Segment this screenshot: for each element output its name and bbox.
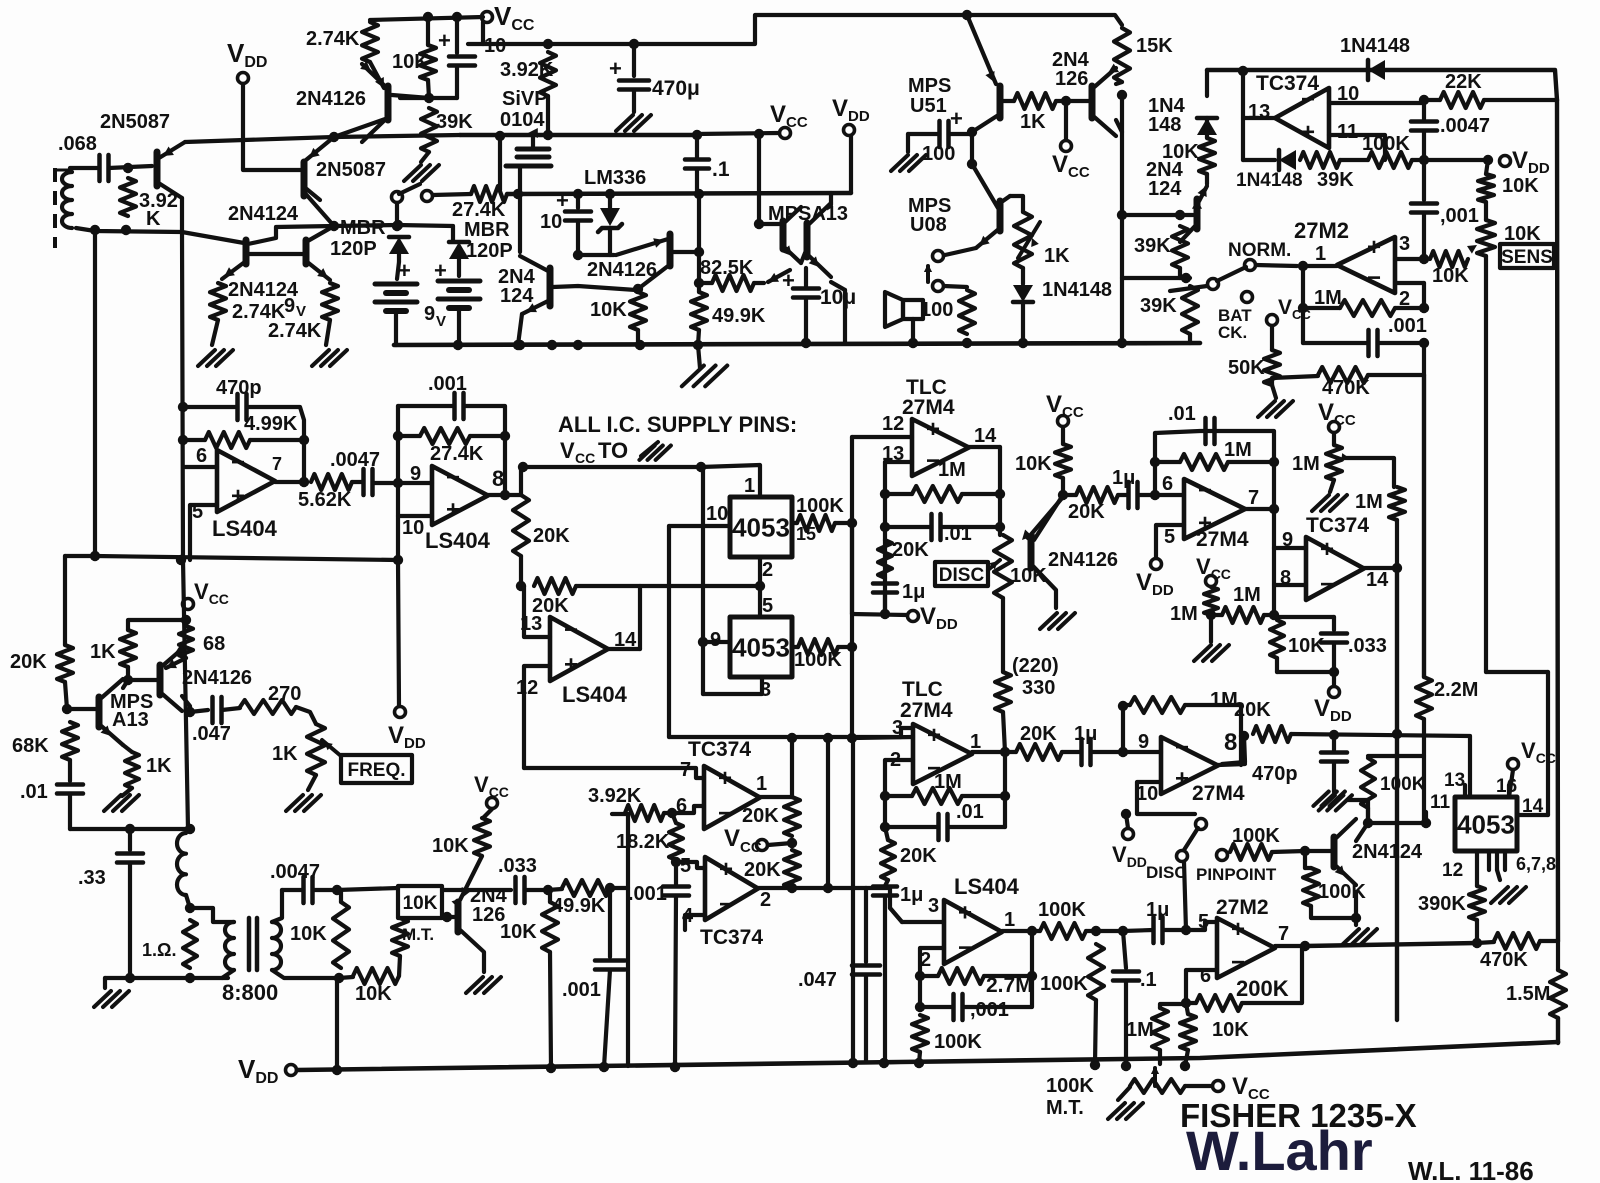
transistor 2N4124 pair-left <box>243 240 250 264</box>
svg-text:330: 330 <box>1022 677 1055 699</box>
transistor 2N4126 disc emitter arrow <box>1022 530 1032 541</box>
svg-text:126: 126 <box>1055 68 1088 90</box>
resistor 20K left <box>57 645 73 682</box>
wire 10K lm to rail <box>636 330 640 345</box>
diode 1N4148 top <box>1368 60 1385 80</box>
svg-text:+: + <box>1367 234 1381 261</box>
node rail 907 <box>908 338 918 348</box>
wire pin6 <box>185 465 217 469</box>
wire 1M 27m4a right <box>962 492 1000 496</box>
svg-text:.033: .033 <box>498 855 537 877</box>
svg-text:100K: 100K <box>934 1031 982 1053</box>
wire 20K-1u join <box>885 880 888 886</box>
wire 2N4126mid collector <box>638 266 668 289</box>
ground disc <box>1040 613 1057 629</box>
svg-text:39K: 39K <box>1140 295 1177 317</box>
capacitor 470uF <box>619 78 649 83</box>
svg-text:14: 14 <box>974 425 997 447</box>
svg-text:390K: 390K <box>1418 893 1466 915</box>
capacitor 10uF out <box>793 286 819 291</box>
svg-text:LS404: LS404 <box>425 528 491 553</box>
wire MPSA13 base <box>759 222 783 226</box>
pot arrow mt <box>1153 1068 1157 1086</box>
wire 1M right <box>1395 306 1424 310</box>
ground under 50K <box>1258 401 1275 417</box>
wire pin10 d <box>1137 782 1195 814</box>
transistor MPSA13 T2 <box>804 223 811 257</box>
mosfet stub <box>531 137 535 149</box>
node 548,135 <box>543 130 553 140</box>
svg-text:100: 100 <box>922 143 955 165</box>
wire MT pot bottom <box>399 956 400 976</box>
chip 4053 C <box>1455 797 1517 851</box>
resistor 10K g <box>1180 1014 1196 1050</box>
box 10K MT <box>398 886 442 918</box>
node 1424,160 <box>1419 155 1429 165</box>
svg-text:10K: 10K <box>1432 265 1469 287</box>
svg-text:9: 9 <box>424 303 435 325</box>
node 190,712 <box>185 707 195 717</box>
switch circle norm L <box>1208 279 1219 290</box>
node 852,738 <box>847 733 857 743</box>
node 548,44 <box>543 39 553 49</box>
wire .033 right <box>525 888 548 892</box>
wire dashed-box stub top <box>55 169 70 172</box>
wire 10K t3 to rail <box>550 952 551 1068</box>
svg-text:1K: 1K <box>146 755 172 777</box>
svg-text:TC374: TC374 <box>1306 514 1369 537</box>
svg-text:+: + <box>718 765 732 792</box>
node rail 1185 <box>1180 1061 1190 1071</box>
svg-text:1K: 1K <box>272 743 298 765</box>
node rail 457 <box>453 340 463 350</box>
node 852,647 <box>847 642 857 652</box>
svg-text:+: + <box>446 496 460 523</box>
mosfet source bar <box>506 164 551 169</box>
capacitor .033 bl <box>513 877 518 903</box>
wire 1426 up <box>1424 812 1428 823</box>
svg-text:1μ: 1μ <box>900 884 923 906</box>
capacitor .001 fb <box>1366 330 1371 356</box>
op-amp 27M2 B <box>1217 918 1275 978</box>
wire cap f right <box>1163 928 1186 932</box>
pot arrow 1K <box>1018 222 1040 258</box>
wire 50K stem <box>1270 326 1274 350</box>
diode to 10K <box>1205 118 1209 138</box>
svg-text:68K: 68K <box>12 735 49 757</box>
wire 866-890 pin3 link <box>866 888 902 922</box>
svg-text:27M2: 27M2 <box>1294 218 1349 243</box>
switch circle norm R <box>1245 260 1256 271</box>
wire right rail bottom <box>1556 1018 1560 1043</box>
wire .01 a left <box>885 525 931 529</box>
node 885,796 <box>880 791 890 801</box>
node 852,523 <box>847 518 857 528</box>
wire T2 emitter lead <box>831 282 845 290</box>
wire 2N5087R collector down <box>303 186 320 200</box>
svg-text:49.9K: 49.9K <box>552 895 606 917</box>
wire base pp <box>1305 849 1334 853</box>
terminal Vcc 4053 <box>1508 759 1519 770</box>
wire .001 t stem <box>608 888 612 957</box>
wire .1 f stem <box>1123 931 1126 968</box>
svg-text:4.99K: 4.99K <box>244 413 298 435</box>
wire .001 right <box>464 406 505 436</box>
wire cap e right <box>1091 750 1123 754</box>
wire out14 b column <box>1395 568 1399 1020</box>
transistor 2N5087 left <box>154 152 161 186</box>
terminal Vdd a <box>908 611 919 622</box>
svg-text:20K: 20K <box>1068 501 1105 523</box>
wire right rail upper <box>1557 100 1558 941</box>
wire .001 e wires <box>920 1005 953 1009</box>
node 398,225 <box>393 220 403 230</box>
resistor 100 spk <box>959 290 975 334</box>
wire 2N4126bl base <box>128 678 160 682</box>
wire switch to diode1 <box>395 203 399 225</box>
wire 2N4126bl collector <box>182 696 190 712</box>
wire T2 emitter drop <box>843 290 847 343</box>
wire 1424 drop <box>1422 736 1426 823</box>
svg-text:39K: 39K <box>436 111 473 133</box>
node 920,1007 <box>915 1002 925 1012</box>
svg-text:TO: TO <box>598 438 628 463</box>
wire zener bottom <box>608 230 612 255</box>
svg-text:5: 5 <box>1164 526 1175 548</box>
svg-text:.1: .1 <box>1140 969 1157 991</box>
capacitor .047 b <box>852 963 880 968</box>
svg-text:8: 8 <box>492 466 504 491</box>
wire vdd sw stub <box>1126 814 1128 828</box>
battery 9V B <box>438 279 480 284</box>
node 1211,615 <box>1206 610 1216 620</box>
node 1155,495 <box>1150 490 1160 500</box>
wire y978 <box>105 976 228 980</box>
terminal Vcc tc <box>757 840 768 851</box>
wire 10K t1 top <box>339 890 343 902</box>
svg-text:2.74K: 2.74K <box>268 320 322 342</box>
svg-text:1M: 1M <box>1210 689 1238 711</box>
svg-text:+: + <box>927 722 941 749</box>
resistor 4.99K <box>205 432 250 448</box>
transformer secondary <box>272 922 281 970</box>
terminal Vdd b <box>1151 559 1162 570</box>
svg-text:100K: 100K <box>796 495 844 517</box>
wire fb mid <box>1340 158 1368 162</box>
wire 10u to rail <box>804 298 808 343</box>
wire 2N4124 collector diag <box>1356 823 1368 841</box>
wire 885 column <box>883 462 887 614</box>
wire norm left stub <box>1170 286 1207 291</box>
wire pin8 b <box>1275 583 1306 587</box>
wire 1K to 2N4126 <box>1056 99 1090 103</box>
node rail 551 <box>546 1063 556 1073</box>
transistor U51 bar <box>997 86 1004 118</box>
resistor MT pot <box>392 918 408 956</box>
wire cap10 bottom <box>455 66 459 98</box>
wire 1123 up <box>1121 706 1125 752</box>
op-amp TC374 D <box>705 857 758 920</box>
wire .001 t to rail <box>604 970 610 1067</box>
resistor 20K 885 <box>878 540 892 578</box>
wire 255 run <box>578 253 614 257</box>
svg-text:1M: 1M <box>1314 287 1342 309</box>
svg-text:LM336: LM336 <box>584 167 646 189</box>
wire 1K b2 gnd lead <box>122 788 132 796</box>
wire output13 column <box>1241 71 1245 160</box>
svg-text:LS404: LS404 <box>954 874 1020 899</box>
wire .001fb right <box>1378 341 1424 345</box>
node 1305,946 <box>1300 941 1310 951</box>
terminal Vcc left <box>183 599 194 610</box>
node 698,283 <box>694 278 704 288</box>
svg-text:DISC: DISC <box>939 565 985 586</box>
wire 390K down <box>1475 920 1479 943</box>
svg-text:.33: .33 <box>78 867 106 889</box>
wire 1M c leads <box>1264 613 1274 617</box>
switch lever norm <box>1217 267 1246 281</box>
svg-text:1.5M: 1.5M <box>1506 983 1550 1005</box>
svg-text:12: 12 <box>1442 860 1463 881</box>
wire 20K left drop <box>1222 736 1245 764</box>
wire pin9 d <box>1123 750 1161 754</box>
resistor 1ohm <box>183 920 197 968</box>
node 885,827 <box>880 822 890 832</box>
svg-text:.1: .1 <box>712 158 730 181</box>
svg-text:9: 9 <box>284 295 295 317</box>
node 334,137 <box>329 132 339 142</box>
pin13 stub <box>1463 785 1467 797</box>
svg-text:2.74K: 2.74K <box>306 28 360 50</box>
svg-text:ALL I.C. SUPPLY PINS:: ALL I.C. SUPPLY PINS: <box>558 412 797 437</box>
resistor 10K right <box>1199 138 1215 174</box>
node 1186,1003 <box>1181 998 1191 1008</box>
wire 100K ls4 leads <box>1032 929 1040 933</box>
wire y278 <box>1122 276 1190 280</box>
wire 1M b leads <box>1155 460 1180 464</box>
node 1397,568 <box>1392 563 1402 573</box>
svg-text:4053: 4053 <box>732 632 790 662</box>
svg-text:SiVP: SiVP <box>502 88 548 110</box>
node 304,482 <box>299 477 309 487</box>
resistor 20K mid2 <box>1076 487 1118 503</box>
svg-text:MBR: MBR <box>464 219 510 241</box>
wire .01 d left <box>885 825 938 829</box>
svg-text:3: 3 <box>1399 233 1410 255</box>
wire diode2 to battery <box>457 259 461 276</box>
wire cap10 stem <box>455 17 459 53</box>
wire 10K to emitter <box>1205 174 1209 184</box>
wire 470p right <box>247 407 304 440</box>
wire 10u stub <box>804 268 808 286</box>
wire tc374d out right <box>792 886 866 890</box>
svg-text:−: − <box>231 449 245 476</box>
wire 337 riser <box>335 978 339 1070</box>
transistor MPSA13 T1 <box>780 221 787 249</box>
svg-text:+: + <box>564 652 578 679</box>
wire .033 stem <box>1332 617 1336 630</box>
wire mpsa13 emitter lead <box>123 745 132 752</box>
capacitor .01 left <box>57 782 83 787</box>
wire out8 <box>488 493 505 497</box>
node rail 673 <box>670 1062 680 1072</box>
wire out column <box>1301 266 1305 343</box>
wire y560 <box>95 556 398 560</box>
wire 1274 column top <box>1272 462 1276 548</box>
wire diode1-diode2 top <box>397 225 453 241</box>
wire pin5 4053b <box>758 586 762 617</box>
svg-text:10K: 10K <box>1504 223 1541 245</box>
svg-text:A13: A13 <box>112 709 149 731</box>
node 828,738 <box>823 733 833 743</box>
resistor 68 <box>179 626 193 658</box>
wire 2N4124 mid base <box>553 286 636 290</box>
svg-text:2: 2 <box>762 559 773 581</box>
svg-text:5: 5 <box>762 595 773 617</box>
transistor 2N4126 top-right <box>1089 86 1096 118</box>
wire 49.9K to rail <box>698 330 699 345</box>
node 505,436 <box>500 431 510 441</box>
wire 3.92K right <box>664 811 672 815</box>
wire out7 <box>275 480 304 484</box>
wire 1274 585-617 <box>1272 585 1276 617</box>
node 1424,343 <box>1419 338 1429 348</box>
wire mt gnd lead <box>1118 1087 1130 1100</box>
wire pin5 <box>190 505 217 560</box>
wire U51 emitter diag <box>967 15 996 84</box>
wire 628 down to rail <box>626 888 630 1066</box>
resistor 18.2K <box>669 823 683 860</box>
node rail 602 <box>599 1062 609 1072</box>
wire .01 a right <box>941 525 1000 529</box>
resistor 82.5K <box>712 275 754 291</box>
node 505,495 <box>500 490 510 500</box>
svg-text:124: 124 <box>500 285 534 307</box>
resistor 100K h <box>1361 758 1375 808</box>
wire disc emitter diag <box>1028 497 1063 538</box>
svg-text:1M: 1M <box>1170 603 1198 625</box>
resistor 39K 1 <box>1172 226 1188 268</box>
node 186,620 <box>181 615 191 625</box>
wire pin2 4053a <box>758 557 762 586</box>
svg-text:6,7,8: 6,7,8 <box>1516 854 1556 874</box>
resistor 330 <box>995 672 1011 712</box>
svg-text:.01: .01 <box>1168 403 1196 425</box>
wire 65 down <box>63 556 67 645</box>
pin678 stub2 <box>1495 851 1499 870</box>
wire mosfet drop <box>498 136 502 190</box>
wire 1M g down <box>1158 1050 1162 1064</box>
wire 1207 drop <box>1205 70 1209 96</box>
transistor 2N4126 bl2 <box>455 902 462 932</box>
wire Vcc tc stub <box>768 843 792 845</box>
wire pair-right collector <box>306 226 334 242</box>
wire 1M b right <box>1228 460 1274 464</box>
wire rail to center gnd <box>698 345 700 368</box>
svg-text:1M: 1M <box>938 459 966 481</box>
wire cap f leads <box>1123 930 1153 931</box>
terminal Vdd top-left <box>238 73 249 84</box>
inductor 1mH left <box>177 833 186 895</box>
wire 1M e right <box>1185 705 1241 765</box>
wire pin7 long <box>524 768 704 778</box>
svg-text:470p: 470p <box>1252 763 1298 785</box>
dashed search-coil line <box>53 168 57 248</box>
node 697,135 <box>692 130 702 140</box>
node 337,890 <box>332 885 342 895</box>
svg-text:1N4148: 1N4148 <box>1340 35 1410 57</box>
resistor 39K 2 <box>1182 286 1198 334</box>
svg-text:1M: 1M <box>1233 584 1261 606</box>
wire cap to 255 <box>576 221 580 255</box>
node 500,136 <box>495 131 505 141</box>
node top rail B <box>452 12 462 22</box>
node 792,843 <box>787 838 797 848</box>
node 806,343 <box>801 338 811 348</box>
wire bottom rail mid <box>394 343 1200 345</box>
svg-text:4053: 4053 <box>1457 809 1515 839</box>
node 304,440 <box>299 435 309 445</box>
wire 852 column <box>850 437 854 737</box>
resistor 100K f <box>1088 944 1104 1000</box>
switch lever <box>399 184 420 194</box>
wire 27.4K right <box>470 434 505 438</box>
wire 1K branch <box>128 620 186 630</box>
node 885,614 <box>880 609 890 619</box>
svg-text:SENS: SENS <box>1501 247 1553 268</box>
svg-text:20K: 20K <box>900 845 937 867</box>
diode 1N4148 left <box>1013 285 1033 302</box>
wire box top <box>1274 615 1334 619</box>
svg-text:120P: 120P <box>466 240 513 262</box>
diode 1N4148 v right <box>1197 118 1217 135</box>
svg-text:.047: .047 <box>798 969 837 991</box>
resistor 27.4K top <box>471 186 507 202</box>
wire 2.74K b to gnd <box>326 320 330 345</box>
wire base wire left <box>67 707 97 711</box>
wire .0047 right lead <box>313 888 337 892</box>
wire pin5 e <box>1186 922 1217 930</box>
svg-text:+: + <box>926 416 940 443</box>
op-amp TC374 B <box>1306 537 1364 600</box>
resistor 1M c <box>1222 607 1264 623</box>
svg-text:2: 2 <box>760 889 771 911</box>
capacitor .01 b <box>1203 418 1208 444</box>
wire disc collector <box>1031 564 1056 608</box>
terminal Vcc top-left <box>482 12 493 23</box>
wire 505 vert <box>503 436 507 495</box>
svg-text:10: 10 <box>706 503 728 525</box>
chip 4053 A <box>730 497 792 557</box>
svg-text:1M: 1M <box>1292 453 1320 475</box>
node 760,586 <box>755 581 765 591</box>
wire 1M d leads <box>885 794 912 798</box>
wire .001 left <box>398 404 454 408</box>
terminal BAT CK <box>1242 292 1253 303</box>
wire 100K e down <box>919 1052 920 1063</box>
wire 100K loop top <box>1368 754 1424 758</box>
svg-text:2N5087: 2N5087 <box>316 159 386 181</box>
mosfet source stem <box>518 166 522 252</box>
svg-text:27M4: 27M4 <box>1192 782 1245 805</box>
ground 1M tr <box>1312 495 1329 511</box>
node rail 967 <box>962 338 972 348</box>
svg-text:49.9K: 49.9K <box>712 305 766 327</box>
wire 669 column <box>667 526 671 737</box>
wire 20K d top <box>885 827 888 840</box>
capacitor .001 t <box>595 958 625 963</box>
transistor 2N4126 mid <box>667 234 674 266</box>
